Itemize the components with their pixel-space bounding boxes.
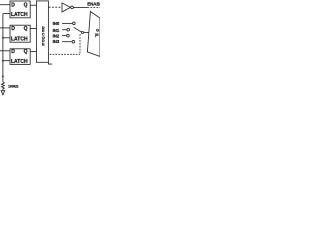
wire: dashed ENABLE net to edge [87,7,100,9]
latch U2 [10,25,30,42]
wire: vertical strobe bus [2,14,4,82]
switch wiper arm SW1 [74,27,82,32]
svg-text:D: D [11,26,15,32]
terminal arrow [1,91,5,95]
svg-text:IN0: IN0 [53,21,60,26]
svg-text:ENABLE: ENABLE [87,2,100,7]
wire: latch 1 Q output to decoder [30,4,36,6]
amplifier A1 gain block [87,12,100,57]
node: junction dot resistor tap [2,75,4,77]
svg-text:Q: Q [24,26,28,32]
label DECODE (stacked) [42,26,45,47]
wire: strobe line into latch 1 [3,13,10,15]
wire: IN3 lead [62,41,72,43]
svg-text:IN3: IN3 [53,39,60,44]
svg-text:(G: (G [95,33,99,37]
latch U1 [10,1,30,18]
wire: data input line to latch 1 D [0,4,10,6]
svg-text:LATCH: LATCH [11,37,28,43]
wire: latch 2 Q output to decoder [30,28,36,30]
svg-text:IN1: IN1 [53,28,60,33]
resistor R1 100k [2,82,5,91]
wire: inverter output line [73,6,87,8]
wire: dashed wiper control line horizontal from decoder [50,53,80,55]
wire: dashed wiper control line vertical [79,34,81,54]
node: junction dot latch 2 strobe tap [2,37,4,39]
wire: strobe line into latch 3 [3,60,10,62]
svg-text:Q: Q [24,49,28,55]
wire: IN2 lead [62,35,66,37]
svg-text:E: E [42,42,45,46]
wire: dashed enable line decoder to inverter [49,6,62,8]
wire: data input line to latch 3 D [0,50,10,52]
svg-text:LATCH: LATCH [11,12,28,18]
wire: strobe line into latch 2 [3,37,10,39]
svg-text:D: D [11,3,15,9]
wire: pivot to amplifier input [84,32,89,34]
wire: IN0 lead [62,22,72,24]
decoder U4 [37,1,49,62]
wire: IN1 lead [62,29,67,31]
wire: data input line to latch 2 D [0,27,10,29]
svg-text:100kΩ: 100kΩ [8,84,19,88]
latch U3 [10,49,30,65]
wire: decoder bottom output stub [48,62,52,64]
inverter U5 [62,3,70,12]
node: junction dot latch 3 strobe tap [2,60,4,62]
switch contact IN1 [67,28,70,31]
switch pivot contact [81,31,83,33]
svg-text:Q: Q [24,3,28,9]
svg-text:IN2: IN2 [53,34,60,39]
svg-text:LATCH: LATCH [11,59,28,65]
switch contact IN0 [73,22,76,25]
switch contact IN2 [67,34,70,37]
switch contact IN3 [72,40,75,43]
wire: latch 3 Q output to decoder [30,51,36,53]
svg-text:D: D [11,49,15,55]
